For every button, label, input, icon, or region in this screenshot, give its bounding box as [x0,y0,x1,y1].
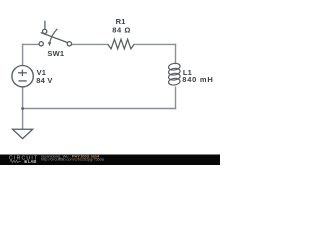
svg-text:LAB: LAB [28,159,37,164]
svg-text:84 Ω: 84 Ω [112,25,131,34]
svg-text:840 mH: 840 mH [182,75,213,84]
svg-text:84 V: 84 V [36,76,52,85]
svg-text:SW1: SW1 [47,49,64,58]
svg-text:http://circuitlab.com/c/bs262p: http://circuitlab.com/c/bs262pg/755da [41,158,105,162]
